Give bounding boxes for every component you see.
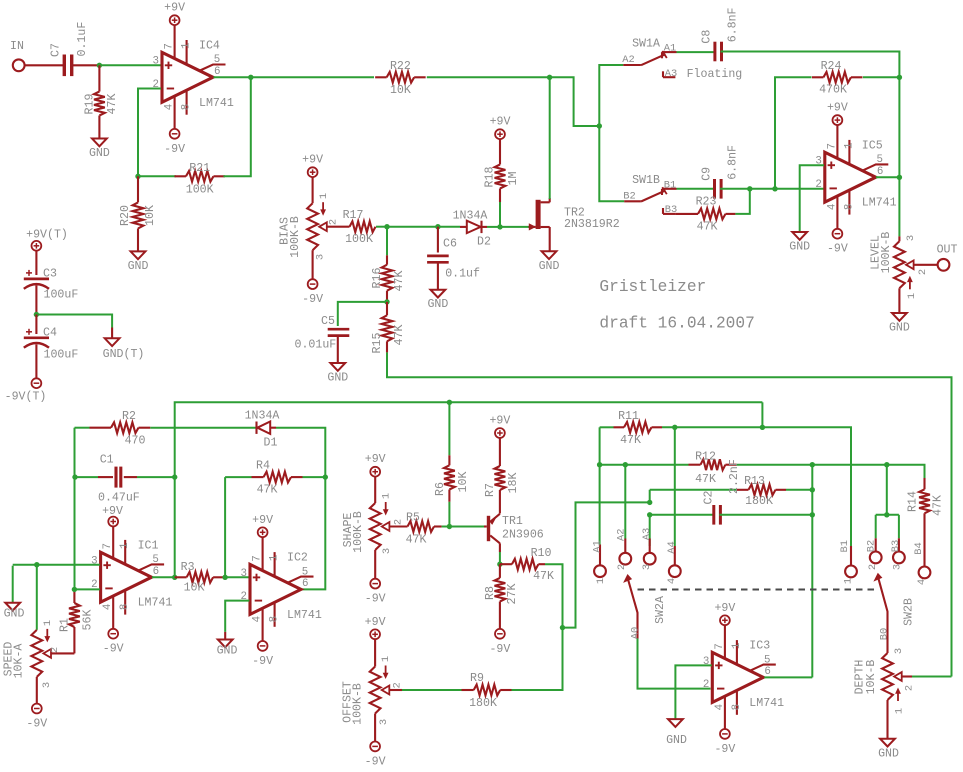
power -9V below SHAPE bbox=[365, 579, 386, 606]
svg-text:47K: 47K bbox=[393, 325, 406, 346]
ground below LEVEL bbox=[889, 313, 910, 335]
svg-text:3: 3 bbox=[905, 235, 917, 241]
capacitor C8 bbox=[700, 7, 739, 61]
node SPEED top bbox=[34, 562, 39, 567]
node A2/R12 bbox=[623, 462, 628, 467]
capacitor C5 bbox=[295, 315, 350, 363]
svg-text:2: 2 bbox=[616, 564, 628, 570]
wire A1 to C8 bbox=[677, 51, 715, 53]
svg-text:D1: D1 bbox=[264, 437, 278, 450]
switch SW2B lever bbox=[873, 573, 915, 653]
potentiometer SPEED bbox=[2, 620, 61, 688]
svg-text:LM741: LM741 bbox=[287, 609, 322, 622]
wire IC1 out col bbox=[174, 477, 176, 577]
wire bbox=[374, 714, 376, 742]
wire bbox=[35, 344, 37, 378]
svg-text:8: 8 bbox=[181, 104, 193, 110]
svg-text:47K: 47K bbox=[931, 495, 944, 516]
resistor R15 bbox=[371, 302, 406, 354]
svg-text:-9V: -9V bbox=[164, 143, 185, 156]
transistor TR1 bbox=[484, 514, 544, 544]
ground below C6 bbox=[427, 290, 448, 312]
wire bbox=[374, 550, 376, 579]
power -9V below IC1 bbox=[103, 629, 124, 656]
svg-text:47K: 47K bbox=[695, 473, 716, 486]
wire IC3 out bbox=[764, 676, 812, 678]
resistor R16 bbox=[371, 227, 406, 302]
svg-text:A1: A1 bbox=[664, 43, 676, 55]
wire bbox=[312, 250, 314, 279]
svg-text:IC4: IC4 bbox=[199, 40, 220, 53]
capacitor C6 bbox=[427, 227, 480, 290]
svg-text:8: 8 bbox=[119, 604, 131, 610]
power +9V above IC3 bbox=[714, 602, 735, 625]
svg-text:0.01uF: 0.01uF bbox=[295, 339, 337, 352]
resistor R12 bbox=[689, 450, 737, 486]
svg-text:-9V: -9V bbox=[827, 243, 848, 256]
svg-text:0.1uF: 0.1uF bbox=[76, 22, 89, 57]
potentiometer SHAPE bbox=[342, 493, 405, 554]
node IC1 out bbox=[172, 575, 177, 580]
svg-text:2: 2 bbox=[917, 269, 929, 275]
svg-text:180K: 180K bbox=[469, 697, 497, 710]
power -9V below OFFSET bbox=[365, 742, 386, 769]
svg-text:R18: R18 bbox=[483, 167, 496, 188]
switch SW1A bbox=[622, 38, 676, 67]
node TR2 gate bbox=[497, 224, 502, 229]
svg-text:47K: 47K bbox=[106, 94, 119, 115]
svg-text:10K: 10K bbox=[184, 582, 205, 595]
wire SPEED wiper to R1 bbox=[51, 652, 74, 654]
wire A1 column bbox=[599, 465, 601, 545]
svg-text:R8: R8 bbox=[484, 586, 497, 600]
svg-text:LM741: LM741 bbox=[862, 197, 897, 210]
svg-text:A3: A3 bbox=[641, 528, 653, 540]
svg-text:+9V: +9V bbox=[489, 415, 510, 428]
contact A3 sw2 bbox=[641, 528, 656, 570]
svg-text:1: 1 bbox=[843, 142, 855, 148]
svg-text:2: 2 bbox=[703, 679, 709, 691]
svg-text:3: 3 bbox=[893, 648, 905, 654]
node R13 col top bbox=[810, 462, 815, 467]
wire A3 column bbox=[649, 515, 651, 546]
node C2 left bbox=[647, 512, 652, 517]
node R11 right bbox=[672, 425, 677, 430]
wire IC3out column bbox=[811, 465, 813, 678]
svg-text:-9V: -9V bbox=[302, 293, 323, 306]
svg-text:GND: GND bbox=[327, 372, 348, 385]
node B2B3 bar bbox=[884, 512, 889, 517]
svg-text:LM741: LM741 bbox=[749, 697, 784, 710]
capacitor C9 bbox=[700, 145, 739, 199]
potentiometer DEPTH bbox=[854, 648, 952, 714]
wire OFFSET wiper to R9 bbox=[389, 689, 461, 691]
svg-text:C6: C6 bbox=[443, 238, 457, 251]
wire A3 top corner bbox=[649, 490, 651, 503]
node R24 bottom bbox=[772, 186, 777, 191]
svg-text:10K-A: 10K-A bbox=[12, 644, 25, 679]
resistor R18 bbox=[483, 139, 520, 202]
wire to IC1 pin2 bbox=[74, 588, 99, 590]
svg-text:R4: R4 bbox=[256, 460, 270, 473]
svg-text:2: 2 bbox=[327, 219, 339, 225]
resistor R14 bbox=[906, 478, 944, 536]
svg-text:7: 7 bbox=[102, 543, 114, 549]
svg-text:2: 2 bbox=[867, 564, 879, 570]
svg-text:GND: GND bbox=[128, 260, 149, 273]
svg-text:100uF: 100uF bbox=[44, 289, 79, 302]
wire C8 node to IC5 out bbox=[898, 77, 900, 177]
power -9V below IC3 bbox=[714, 729, 735, 756]
svg-text:5: 5 bbox=[302, 566, 308, 578]
svg-text:-9V: -9V bbox=[26, 718, 47, 731]
power +9V above SHAPE bbox=[365, 453, 386, 476]
svg-text:3: 3 bbox=[641, 564, 653, 570]
svg-text:470: 470 bbox=[125, 435, 146, 448]
node supply mid bbox=[34, 312, 39, 317]
svg-text:R5: R5 bbox=[406, 512, 420, 525]
svg-text:2: 2 bbox=[49, 647, 61, 653]
node R4 right bbox=[323, 474, 328, 479]
wire R11 left down bbox=[599, 427, 601, 464]
op-amp IC3 bbox=[703, 626, 784, 729]
svg-text:8: 8 bbox=[843, 204, 855, 210]
svg-text:R15: R15 bbox=[371, 333, 384, 354]
svg-text:10K-B: 10K-B bbox=[865, 660, 878, 695]
svg-text:Floating: Floating bbox=[687, 68, 743, 81]
svg-text:GND(T): GND(T) bbox=[103, 348, 145, 361]
wire SPEED top bbox=[36, 565, 38, 630]
node top wire R6 bbox=[447, 400, 452, 405]
svg-text:1M: 1M bbox=[507, 172, 520, 186]
wire node up to A-net bbox=[563, 502, 650, 627]
node tri out bbox=[560, 625, 565, 630]
wire C9 to IC5 pin2 bbox=[720, 188, 824, 190]
svg-text:Gristleizer: Gristleizer bbox=[599, 278, 706, 296]
wire R21 to output column bbox=[223, 77, 250, 176]
wire A0 to IC3 pin2 bbox=[638, 639, 711, 689]
ground at IC5 pin3 bbox=[789, 232, 810, 254]
ground below R20 bbox=[128, 251, 149, 273]
contact A1 bbox=[592, 540, 608, 584]
capacitor C1 bbox=[75, 454, 175, 505]
svg-text:SW2A: SW2A bbox=[654, 596, 667, 624]
svg-text:5: 5 bbox=[764, 654, 770, 666]
svg-text:4: 4 bbox=[666, 578, 678, 584]
svg-text:3: 3 bbox=[314, 254, 326, 260]
resistor R24 bbox=[812, 60, 863, 97]
node R3/R4 bbox=[222, 575, 227, 580]
power -9V below IC2 bbox=[252, 641, 273, 668]
svg-text:4: 4 bbox=[102, 604, 114, 610]
svg-text:R6: R6 bbox=[434, 482, 447, 496]
svg-text:4: 4 bbox=[252, 616, 264, 622]
svg-text:7: 7 bbox=[826, 143, 838, 149]
wire bbox=[374, 477, 376, 503]
power +9V above IC4 bbox=[164, 2, 185, 25]
svg-text:+9V: +9V bbox=[365, 616, 386, 629]
svg-text:47K: 47K bbox=[393, 271, 406, 292]
svg-text:6: 6 bbox=[214, 66, 220, 78]
svg-text:8: 8 bbox=[269, 616, 281, 622]
svg-text:GND: GND bbox=[539, 260, 560, 273]
svg-text:4: 4 bbox=[164, 104, 176, 110]
resistor R9 bbox=[462, 672, 512, 710]
svg-text:R23: R23 bbox=[696, 196, 717, 209]
svg-text:SW1A: SW1A bbox=[632, 38, 660, 51]
svg-text:2: 2 bbox=[903, 685, 915, 691]
svg-text:8: 8 bbox=[731, 704, 743, 710]
svg-text:B1: B1 bbox=[664, 180, 676, 192]
svg-text:+9V: +9V bbox=[490, 116, 511, 129]
svg-text:+9V: +9V bbox=[365, 453, 386, 466]
title text bbox=[599, 278, 754, 333]
svg-text:+9V: +9V bbox=[714, 602, 735, 615]
power -9V below IC5 bbox=[827, 229, 848, 256]
svg-text:6.8nF: 6.8nF bbox=[727, 145, 740, 180]
svg-text:+9V(T): +9V(T) bbox=[26, 228, 68, 241]
node A1/R12 bbox=[597, 462, 602, 467]
node switch feed bbox=[597, 123, 602, 128]
contact B1 bbox=[839, 540, 857, 584]
svg-text:R11: R11 bbox=[618, 410, 639, 423]
svg-text:R1: R1 bbox=[58, 618, 71, 632]
node above TR2 bbox=[547, 75, 552, 80]
wire R12 right bbox=[736, 464, 886, 466]
svg-text:0.1uf: 0.1uf bbox=[445, 268, 480, 281]
svg-text:1: 1 bbox=[906, 293, 918, 299]
wire R22 to TR2 node bbox=[427, 76, 550, 78]
power -9V below IC4 bbox=[164, 129, 185, 156]
wire node to C5 bbox=[338, 302, 387, 326]
wire node to IC1 pin3 bbox=[37, 564, 100, 566]
svg-text:R9: R9 bbox=[470, 672, 484, 685]
wire R3 to IC2 pin3 bbox=[225, 576, 249, 578]
svg-text:100K-B: 100K-B bbox=[880, 232, 893, 274]
ground below R19 bbox=[89, 139, 110, 161]
svg-text:R14: R14 bbox=[906, 491, 919, 512]
svg-text:3: 3 bbox=[41, 682, 53, 688]
wire top to R11 node bbox=[761, 402, 763, 427]
wire R12 row bbox=[600, 464, 689, 466]
switch SW2A lever bbox=[623, 574, 667, 639]
svg-text:R7: R7 bbox=[484, 483, 497, 497]
svg-text:R2: R2 bbox=[122, 410, 136, 423]
wire C1 col down bbox=[74, 477, 76, 589]
wire jog to switches bbox=[550, 77, 600, 126]
svg-text:R3: R3 bbox=[181, 561, 195, 574]
svg-text:IN: IN bbox=[10, 40, 24, 53]
svg-text:R13: R13 bbox=[744, 475, 765, 488]
svg-text:B2: B2 bbox=[865, 540, 877, 552]
wire bias node to C6 bbox=[387, 226, 438, 228]
ground GND(T) bbox=[103, 338, 145, 361]
svg-text:A2: A2 bbox=[622, 54, 634, 66]
resistor R10 bbox=[500, 547, 554, 583]
svg-text:5: 5 bbox=[152, 554, 158, 566]
svg-text:R20: R20 bbox=[119, 205, 132, 226]
svg-text:180K: 180K bbox=[745, 495, 773, 508]
svg-text:+9V: +9V bbox=[302, 154, 323, 167]
svg-text:100K: 100K bbox=[186, 184, 214, 197]
resistor R1 bbox=[58, 589, 94, 653]
resistor R20 bbox=[119, 176, 157, 251]
svg-text:5: 5 bbox=[214, 54, 220, 66]
node top feed bbox=[760, 425, 765, 430]
svg-text:IC3: IC3 bbox=[749, 640, 770, 653]
wire left column bbox=[74, 428, 76, 477]
svg-text:GND: GND bbox=[789, 241, 810, 254]
svg-text:10K: 10K bbox=[390, 84, 411, 97]
wire to SW1B bbox=[599, 126, 624, 201]
resistor R6 bbox=[434, 402, 470, 502]
contact B3 bbox=[890, 515, 905, 570]
svg-text:+9V: +9V bbox=[827, 102, 848, 115]
resistor R2 bbox=[75, 410, 151, 448]
svg-text:2: 2 bbox=[392, 682, 404, 688]
svg-text:SW2B: SW2B bbox=[902, 598, 915, 626]
svg-text:GND: GND bbox=[217, 645, 238, 658]
wire to SW1A bbox=[599, 65, 623, 126]
svg-text:R10: R10 bbox=[531, 547, 552, 560]
svg-text:470K: 470K bbox=[819, 84, 847, 97]
wire R15 to tri bus bbox=[387, 352, 952, 676]
wire D1 to IC2 out column bbox=[276, 428, 325, 477]
contact A2 bbox=[616, 528, 632, 570]
svg-text:OUT: OUT bbox=[937, 244, 958, 257]
wire R24 right bbox=[863, 76, 900, 78]
wire IC1 out bbox=[152, 576, 175, 578]
svg-text:3: 3 bbox=[381, 548, 393, 554]
wire R18 to gate node bbox=[499, 202, 501, 227]
wire D2 to gate node bbox=[487, 226, 500, 228]
wire R4 left down bbox=[224, 477, 226, 577]
switch SW1B bbox=[623, 174, 676, 203]
svg-text:100uF: 100uF bbox=[44, 349, 79, 362]
wire B1 to C9 bbox=[677, 188, 714, 190]
node C1 right bbox=[172, 474, 177, 479]
svg-text:1: 1 bbox=[42, 620, 54, 626]
svg-text:4: 4 bbox=[916, 579, 928, 585]
svg-text:-9V: -9V bbox=[103, 643, 124, 656]
node R13 right bbox=[810, 487, 815, 492]
svg-text:100K-B: 100K-B bbox=[352, 511, 365, 553]
wire to R21 bbox=[138, 175, 176, 177]
svg-text:B3: B3 bbox=[665, 204, 677, 216]
ground below TR2 bbox=[539, 251, 560, 272]
svg-text:draft 16.04.2007: draft 16.04.2007 bbox=[599, 315, 754, 333]
svg-text:4: 4 bbox=[714, 704, 726, 710]
wire R6 to base node bbox=[448, 502, 450, 527]
svg-text:4: 4 bbox=[826, 204, 838, 210]
svg-text:10K: 10K bbox=[457, 472, 470, 493]
svg-text:27K: 27K bbox=[506, 584, 519, 605]
diode D1 bbox=[245, 409, 280, 449]
resistor R11 bbox=[600, 410, 662, 447]
svg-text:R24: R24 bbox=[821, 60, 842, 73]
wire IC2 pin2 to gnd bbox=[225, 601, 249, 632]
svg-text:SW1B: SW1B bbox=[632, 174, 660, 187]
svg-text:R21: R21 bbox=[189, 162, 210, 175]
connector IN bbox=[10, 40, 25, 71]
svg-text:1: 1 bbox=[318, 193, 330, 199]
svg-text:B0: B0 bbox=[878, 628, 890, 640]
svg-text:A1: A1 bbox=[592, 540, 604, 552]
node C1 left bbox=[72, 474, 77, 479]
resistor R23 bbox=[696, 196, 736, 234]
ground at IC3 pin3 bbox=[666, 719, 687, 747]
power +9V above R18 bbox=[490, 116, 511, 139]
contact B2 bbox=[865, 515, 881, 570]
svg-text:47K: 47K bbox=[533, 570, 554, 583]
power +9V above IC1 bbox=[102, 505, 123, 526]
wire R17 to node bbox=[376, 226, 387, 228]
svg-text:1: 1 bbox=[380, 656, 392, 662]
svg-text:B1: B1 bbox=[839, 540, 851, 552]
contact A4 bbox=[666, 541, 681, 584]
svg-text:2: 2 bbox=[392, 519, 404, 525]
contact A3 bbox=[663, 68, 677, 80]
wire IC4 out to R22 bbox=[251, 76, 374, 78]
resistor R8 bbox=[484, 564, 519, 629]
svg-text:GND: GND bbox=[666, 734, 687, 747]
wire DEPTH to gnd bbox=[886, 700, 888, 738]
svg-text:LM741: LM741 bbox=[199, 97, 234, 110]
svg-text:TR1: TR1 bbox=[502, 515, 523, 528]
potentiometer OFFSET bbox=[341, 656, 403, 725]
wire C8 to R24 node bbox=[721, 52, 900, 78]
node B2B3 col top bbox=[884, 462, 889, 467]
svg-text:GND: GND bbox=[4, 608, 25, 621]
op-amp IC2 bbox=[241, 538, 322, 641]
capacitor C3 bbox=[24, 268, 79, 302]
wire bbox=[374, 639, 376, 666]
svg-text:GND: GND bbox=[89, 147, 110, 160]
svg-text:3: 3 bbox=[891, 564, 903, 570]
power -9V(T) bbox=[5, 378, 47, 403]
power +9V above BIAS bbox=[302, 154, 323, 177]
dashed linkage bbox=[638, 589, 876, 591]
svg-text:7: 7 bbox=[164, 43, 176, 49]
svg-text:1: 1 bbox=[731, 643, 743, 649]
node C2 right bbox=[810, 512, 815, 517]
svg-text:+9V: +9V bbox=[252, 514, 273, 527]
wire B3 to R23 bbox=[675, 213, 698, 215]
svg-text:1: 1 bbox=[119, 542, 131, 548]
op-amp IC1 bbox=[91, 526, 172, 629]
svg-text:IC5: IC5 bbox=[862, 139, 883, 152]
wire R12 row to R14 bbox=[887, 465, 925, 478]
svg-text:LM741: LM741 bbox=[138, 597, 173, 610]
wire LEVEL to gnd bbox=[898, 288, 900, 312]
svg-text:56K: 56K bbox=[81, 610, 94, 631]
wire A4 column bbox=[674, 427, 676, 546]
wire R9 to tri node bbox=[512, 628, 563, 690]
wire column to IC2 out bbox=[301, 477, 325, 589]
svg-text:2N3819R2: 2N3819R2 bbox=[564, 218, 620, 231]
wire C6 to D2 bbox=[438, 226, 460, 228]
svg-text:6: 6 bbox=[877, 166, 883, 178]
ground at IC2 pin2 bbox=[217, 632, 238, 658]
power +9V above OFFSET bbox=[365, 616, 386, 639]
svg-text:3: 3 bbox=[91, 556, 97, 568]
wire IC5 pin3 to gnd bbox=[800, 165, 824, 231]
node A3/A0 row bbox=[647, 500, 652, 505]
label LEVEL value bbox=[880, 232, 893, 274]
svg-text:100K: 100K bbox=[345, 233, 373, 246]
node IC5 out bbox=[897, 175, 902, 180]
svg-text:B4: B4 bbox=[913, 542, 925, 554]
